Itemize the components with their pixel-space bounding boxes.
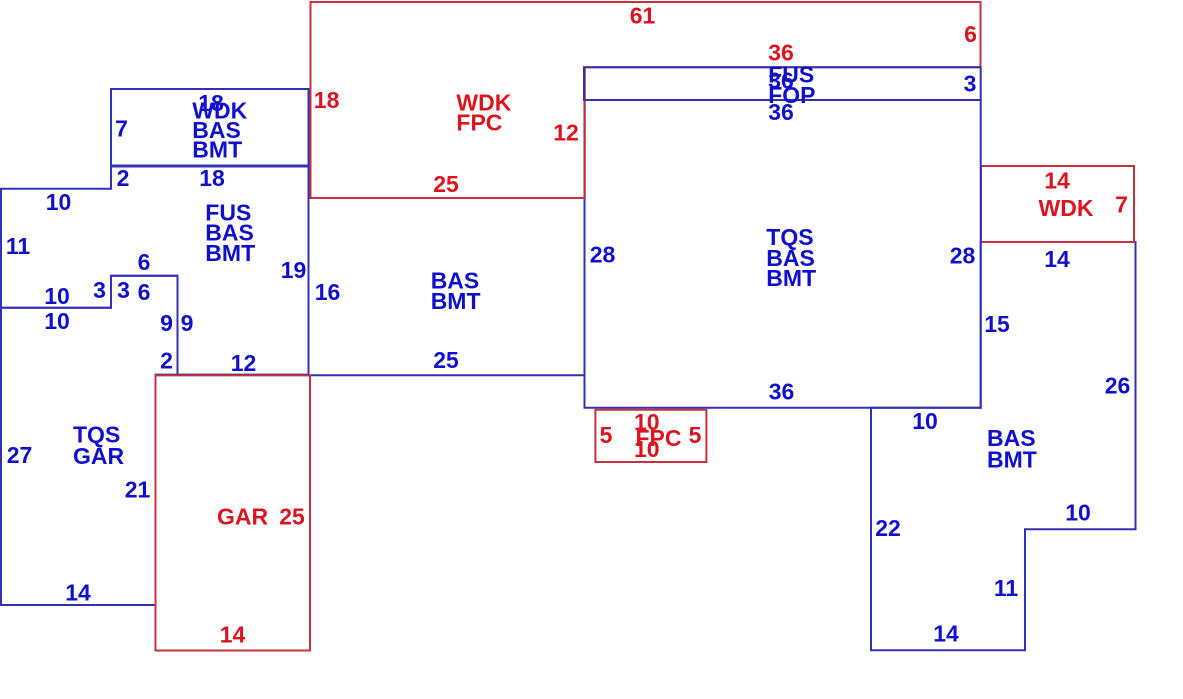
- svg-text:28: 28: [950, 243, 976, 269]
- svg-text:2: 2: [160, 348, 173, 374]
- svg-text:10: 10: [912, 408, 938, 434]
- svg-text:14: 14: [933, 621, 959, 647]
- svg-text:BMT: BMT: [431, 288, 481, 314]
- svg-text:BMT: BMT: [987, 446, 1037, 472]
- svg-text:9: 9: [160, 310, 173, 336]
- svg-text:15: 15: [984, 311, 1010, 337]
- svg-text:9: 9: [181, 310, 194, 336]
- svg-text:14: 14: [1044, 168, 1070, 194]
- region right BAS/BMT outline: [871, 242, 1136, 650]
- svg-text:18: 18: [199, 165, 225, 191]
- svg-text:7: 7: [115, 116, 128, 142]
- svg-text:12: 12: [231, 350, 257, 376]
- svg-text:6: 6: [138, 249, 151, 275]
- svg-text:14: 14: [65, 580, 91, 606]
- svg-text:25: 25: [433, 171, 459, 197]
- svg-text:12: 12: [553, 120, 579, 146]
- svg-text:10: 10: [44, 283, 70, 309]
- region TQS/BAS/BMT main house outline: [585, 100, 981, 408]
- region red FPC outline: [595, 410, 706, 462]
- svg-text:FOP: FOP: [768, 82, 815, 108]
- svg-text:5: 5: [600, 422, 613, 448]
- svg-text:16: 16: [315, 279, 341, 305]
- svg-text:7: 7: [1115, 192, 1128, 218]
- svg-text:6: 6: [138, 279, 151, 305]
- region red WDK/FPC deck outline: [311, 2, 981, 198]
- svg-text:19: 19: [281, 257, 307, 283]
- region FUS/BAS/BMT outline: [1, 167, 309, 375]
- svg-text:11: 11: [994, 575, 1019, 601]
- svg-text:WDK: WDK: [1039, 195, 1094, 221]
- svg-text:14: 14: [220, 622, 246, 648]
- svg-text:2: 2: [117, 165, 130, 191]
- svg-text:BMT: BMT: [192, 137, 242, 163]
- svg-text:10: 10: [634, 436, 660, 462]
- svg-text:3: 3: [964, 71, 977, 97]
- region red GAR outline: [156, 375, 311, 650]
- svg-text:3: 3: [117, 277, 130, 303]
- svg-text:10: 10: [46, 189, 72, 215]
- svg-text:61: 61: [630, 3, 656, 29]
- svg-text:14: 14: [1044, 246, 1070, 272]
- svg-text:25: 25: [433, 347, 459, 373]
- svg-text:26: 26: [1105, 373, 1131, 399]
- svg-text:GAR: GAR: [73, 443, 125, 469]
- region TQS/GAR outline: [1, 276, 178, 605]
- region upper-left WDK/BAS/BMT outline: [111, 89, 309, 166]
- svg-text:11: 11: [6, 233, 31, 259]
- svg-text:25: 25: [279, 504, 305, 530]
- svg-text:18: 18: [314, 87, 340, 113]
- svg-text:GAR: GAR: [217, 504, 269, 530]
- svg-text:22: 22: [875, 515, 901, 541]
- svg-text:21: 21: [125, 477, 151, 503]
- svg-text:BMT: BMT: [766, 265, 816, 291]
- svg-text:3: 3: [93, 277, 106, 303]
- svg-text:27: 27: [7, 442, 33, 468]
- svg-text:6: 6: [964, 21, 977, 47]
- svg-text:FPC: FPC: [456, 109, 502, 135]
- svg-text:BMT: BMT: [205, 240, 255, 266]
- svg-text:5: 5: [689, 422, 702, 448]
- svg-text:10: 10: [1065, 500, 1091, 526]
- region red right WDK outline: [981, 166, 1134, 242]
- svg-text:36: 36: [769, 379, 795, 405]
- region blue FUS/FOP strip outline: [584, 67, 981, 100]
- region central BAS/BMT outline: [309, 198, 585, 375]
- svg-text:28: 28: [590, 242, 616, 268]
- svg-text:10: 10: [44, 308, 70, 334]
